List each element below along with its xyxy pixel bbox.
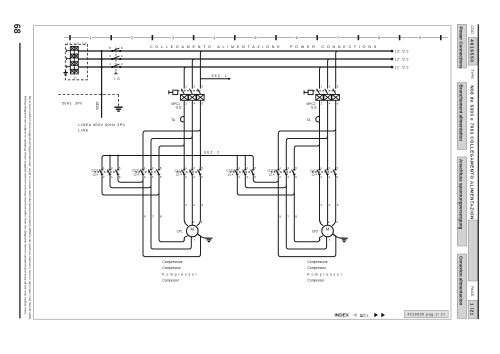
svg-text:Compressore: Compressore (162, 260, 182, 264)
contactor CDT1 (136, 167, 161, 176)
svg-text:12.4: 12.4 (176, 172, 182, 176)
svg-text:5: 5 (202, 85, 204, 89)
svg-text:3: 3 (201, 203, 203, 207)
svg-text:TA: TA (171, 118, 176, 122)
svg-text:L1 L2 L3: L1 L2 L3 (67, 42, 88, 45)
svg-text:12.4: 12.4 (311, 172, 317, 176)
main switch IG blade pole 1-2 (112, 64, 121, 68)
svg-text:COLLEGAMENTO ALIMENTAZIONE PO: COLLEGAMENTO ALIMENTAZIONE POWER CONNECT… (150, 45, 379, 49)
svg-text:3: 3 (337, 203, 339, 207)
ruler numbers (90, 36, 422, 40)
motor earth (205, 238, 212, 241)
file reference box (405, 311, 449, 318)
wire labels 9 7 8 (144, 215, 162, 219)
MPC1 pin labels (185, 85, 203, 106)
svg-text:7: 7 (337, 36, 339, 40)
svg-text:4916550: 4916550 (469, 39, 474, 62)
svg-text:Branchement alimentation: Branchement alimentation (459, 85, 464, 142)
svg-text:4916550 pag.1/ 21: 4916550 pag.1/ 21 (407, 313, 445, 317)
contactor CL2 (312, 167, 337, 176)
svg-text:Gli schemi elettrici sono sogg: Gli schemi elettrici sono soggetti ad ag… (28, 96, 32, 320)
svg-text:INDEX: INDEX (335, 313, 350, 318)
wire drop line L2 to MPC1 pole3 (192, 59, 194, 89)
svg-text:~: ~ (327, 233, 329, 237)
svg-text:6: 6 (337, 102, 339, 106)
breaker MPC1 handle (169, 90, 178, 94)
nav left triangle (gray) (353, 313, 357, 318)
breaker MPC2 contacts (313, 89, 336, 94)
star bridge pole risers (110, 156, 245, 168)
svg-text:Kompressor: Kompressor (162, 272, 198, 276)
svg-text:3: 3 (109, 54, 111, 58)
svg-text:5: 5 (109, 46, 111, 50)
wire MPC1 pole2 down to CL1 (183, 100, 185, 167)
svg-text:TA: TA (307, 118, 312, 122)
svg-text:50Hz 3Ph: 50Hz 3Ph (62, 102, 83, 106)
wire CDT2 col to motor terminal 7 (286, 177, 326, 249)
sidebar cell Anschluss spannungversorgung (457, 157, 466, 246)
wire delta loop CST2-2 to CDT2-6 (237, 177, 294, 195)
svg-text:G.S.: G.S. (176, 105, 182, 109)
svg-text:1: 1 (185, 85, 187, 89)
svg-text:1: 1 (185, 203, 187, 207)
motor terminal labels 1 2 3 (320, 220, 338, 224)
svg-text:1: 1 (321, 85, 323, 89)
wire MPC1 pole6 down to CL1 (199, 100, 201, 167)
current transformer TA1 (180, 116, 184, 121)
wire CDT2 col to motor terminal 8 (278, 177, 336, 257)
wire CL1 col to motor terminal 1 (184, 177, 188, 226)
wire MPC2 pole4 down to CL2 (327, 100, 329, 167)
wire drop line L1 to MPC2 pole1 (320, 67, 322, 89)
wire MPC2 pole2 down to CL2 (319, 100, 321, 167)
sidebar border line (478, 24, 479, 319)
node L2' end dot (391, 58, 394, 61)
svg-text:6: 6 (121, 46, 123, 50)
wire motor frame to earth (333, 234, 344, 238)
svg-text:1: 1 (321, 203, 323, 207)
page frame (34, 25, 451, 319)
svg-text:Kompressor: Kompressor (307, 272, 343, 276)
SEZ.1 branch arrow (200, 78, 228, 80)
wire CDT1 col to motor terminal 9 (159, 177, 188, 242)
motor terminal labels 1 2 3 (185, 220, 203, 224)
svg-text:7: 7 (329, 238, 331, 242)
wire step branch pole4 to CDT1 col3 (151, 136, 192, 167)
svg-text:~: ~ (191, 233, 193, 237)
IG linkage dashed (115, 48, 117, 72)
svg-text:12.4: 12.4 (228, 172, 234, 176)
wire CDT1 col to motor terminal 7 (151, 177, 191, 249)
svg-text:M: M (191, 227, 195, 232)
svg-text:1: 1 (320, 220, 322, 224)
motor bottom terminal labels 9 7 (184, 238, 196, 242)
svg-text:1: 1 (109, 62, 111, 66)
wire step branch pole2 to CDT2 col5 (294, 144, 319, 168)
sidebar gray band (468, 220, 477, 281)
svg-text:Compressor: Compressor (307, 266, 326, 270)
left margin rule (19, 43, 21, 318)
svg-text:2: 2 (193, 203, 195, 207)
svg-text:I G: I G (114, 77, 121, 81)
ruler ticks (70, 35, 441, 40)
svg-text:6: 6 (296, 36, 298, 40)
wire CDT1 col to motor terminal 8 (143, 177, 201, 257)
sidebar cell Conexion alimentacion (457, 254, 466, 319)
svg-text:2: 2 (328, 220, 330, 224)
dashed enclosure line horizontal (58, 94, 118, 96)
svg-text:9: 9 (419, 36, 421, 40)
label Compressore block (162, 260, 198, 283)
svg-text:4: 4 (193, 102, 195, 106)
wire step branch pole2 to CDT1 col5 (159, 144, 184, 168)
svg-text:5: 5 (254, 36, 256, 40)
svg-text:1 /21: 1 /21 (469, 303, 474, 316)
contactor CST2 (230, 167, 255, 176)
wire drop line L3 to MPC2 pole5 (336, 51, 338, 89)
wire CL2 col to motor terminal 2 (327, 177, 329, 226)
wire drop line L2 to MPC2 pole3 (328, 59, 330, 89)
terminal block X1 dashed enclosure (65, 44, 87, 80)
svg-text:1/21: 1/21 (360, 313, 370, 318)
wire CL2 col to motor terminal 3 (332, 177, 336, 226)
wire SEZ.2 star bridge line (102, 156, 253, 168)
svg-text:12.4: 12.4 (269, 172, 275, 176)
power line L3 (78, 50, 392, 52)
svg-text:1 L: 1 L (73, 76, 77, 80)
wire labels 1 2 3 (321, 203, 339, 207)
nav right triangles (374, 313, 378, 318)
wire step branch pole6 to CDT2 col1 (278, 129, 335, 168)
wire step branch pole4 to CDT2 col3 (286, 136, 327, 167)
wire drop line L3 to MPC1 pole5 (200, 51, 202, 89)
wire motor frame to earth (198, 234, 209, 238)
power line L2 (78, 58, 392, 60)
wire labels 9 7 8 (279, 215, 297, 219)
svg-text:LINEA 400V 50Hz 3Ph: LINEA 400V 50Hz 3Ph (78, 123, 125, 127)
breaker MPC2 thermal elements (316, 94, 340, 100)
contactor CST1 (95, 167, 120, 176)
compressor motor CP2 (322, 225, 334, 237)
svg-text:SEZA: SEZA (95, 102, 99, 111)
svg-text:2: 2 (185, 102, 187, 106)
svg-text:PAGE: PAGE (470, 286, 474, 297)
svg-text:SEZ. 1: SEZ. 1 (212, 74, 228, 78)
sidebar cell Power Connections (457, 24, 466, 68)
svg-text:2: 2 (193, 220, 195, 224)
svg-text:Compressore: Compressore (307, 260, 327, 264)
sidebar code 4916550 (468, 38, 477, 66)
wire delta loop CST1-2 to CDT1-6 (102, 177, 159, 195)
svg-text:2: 2 (321, 102, 323, 106)
svg-text:3: 3 (329, 85, 331, 89)
svg-text:2: 2 (329, 203, 331, 207)
wire SEZA vertical drop (101, 51, 103, 118)
svg-text:3: 3 (172, 36, 174, 40)
wire delta loop CST1-6 to CDT1-2 (118, 177, 143, 183)
svg-text:9: 9 (279, 215, 281, 219)
svg-text:Wiring diagrams are subject to: Wiring diagrams are subject to updating;… (24, 96, 28, 315)
svg-text:4: 4 (121, 54, 123, 58)
svg-text:G.S.: G.S. (311, 105, 317, 109)
svg-text:2: 2 (121, 62, 123, 66)
svg-text:1: 1 (90, 36, 92, 40)
svg-text:N08 de 5003 e 7003 COLLEGAMENT: N08 de 5003 e 7003 COLLEGAMENTO ALIMENTA… (470, 86, 475, 224)
svg-text:Power Connections: Power Connections (459, 27, 464, 70)
svg-text:3: 3 (193, 85, 195, 89)
current transformer TA2 (316, 116, 320, 121)
terminal left tick marks (67, 49, 71, 68)
svg-text:L1' /2.0: L1' /2.0 (395, 65, 409, 69)
power line L1 (78, 66, 392, 68)
svg-text:Conexion alimentacion: Conexion alimentacion (459, 256, 464, 305)
svg-text:7: 7 (152, 215, 154, 219)
breaker MPC2 handle (304, 90, 313, 94)
svg-text:L2' /2.0: L2' /2.0 (395, 57, 409, 61)
svg-text:8: 8 (378, 36, 380, 40)
svg-text:7: 7 (193, 238, 195, 242)
svg-text:TYPE: TYPE (470, 69, 474, 79)
svg-text:CP1: CP1 (177, 229, 183, 233)
svg-text:5: 5 (337, 85, 339, 89)
node L3' end dot (391, 50, 394, 53)
svg-text:SEZ. 2: SEZ. 2 (204, 150, 220, 154)
IG handle stub (114, 72, 117, 74)
svg-text:9: 9 (319, 238, 321, 242)
svg-text:4: 4 (213, 36, 215, 40)
svg-text:Compresor: Compresor (307, 279, 325, 283)
wire CDT2 col to motor terminal 9 (294, 177, 323, 242)
compressor motor CP1 (187, 225, 199, 237)
svg-text:1: 1 (185, 220, 187, 224)
wire step branch pole6 to CDT1 col1 (143, 129, 200, 168)
node dots SEZA taps (101, 50, 103, 52)
wire delta loop CST2-6 to CDT2-2 (253, 177, 278, 183)
svg-text:LINE: LINE (78, 129, 88, 133)
main switch IG blade pole 3-4 (112, 56, 121, 60)
wire CL1 col to motor terminal 2 (191, 177, 193, 226)
motor bottom terminal labels 9 7 (319, 238, 331, 242)
svg-text:CP2: CP2 (312, 229, 318, 233)
IG pin labels (109, 46, 123, 66)
svg-text:L3' /2.0: L3' /2.0 (395, 49, 409, 53)
svg-text:9: 9 (184, 238, 186, 242)
main switch IG blade pole 5-6 (112, 48, 121, 52)
wire CL2 col to motor terminal 1 (320, 177, 324, 226)
svg-text:Anschluss spannungversorgung: Anschluss spannungversorgung (459, 159, 464, 230)
svg-text:M: M (326, 227, 330, 232)
wire CL1 col to motor terminal 3 (197, 177, 201, 226)
wire delta loop CST2-4 to CDT2-4 (245, 177, 286, 188)
breaker MPC1 contacts (178, 89, 201, 94)
svg-text:68: 68 (12, 24, 22, 34)
PE earth mark (63, 70, 67, 75)
contactor CDT2 (271, 167, 296, 176)
svg-text:7: 7 (287, 215, 289, 219)
svg-text:Compresor: Compresor (162, 279, 180, 283)
terminal strip X1 grid (70, 47, 78, 74)
svg-text:8: 8 (160, 215, 162, 219)
wire drop line L1 to MPC1 pole1 (184, 67, 186, 89)
svg-text:9: 9 (144, 215, 146, 219)
ground (line earth) (114, 107, 122, 111)
node L1' end dot (391, 66, 394, 69)
contactor CL1 (177, 167, 202, 176)
wire MPC2 pole6 down to CL2 (335, 100, 337, 167)
svg-text:Compressor: Compressor (162, 266, 181, 270)
svg-text:4: 4 (329, 102, 331, 106)
sidebar page number (468, 300, 477, 318)
motor earth (341, 238, 348, 241)
label Compressore block (307, 260, 343, 283)
sidebar cell Branchement alimentation (457, 83, 466, 150)
wire labels 1 2 3 (185, 203, 203, 207)
svg-text:12.4: 12.4 (133, 172, 139, 176)
svg-text:2: 2 (131, 36, 133, 40)
wire delta loop CST1-4 to CDT1-4 (110, 177, 151, 188)
ruler line (64, 37, 448, 39)
svg-text:3: 3 (336, 220, 338, 224)
breaker MPC1 thermal elements (181, 94, 205, 100)
MPC2 pin labels (321, 85, 339, 106)
wire MPC1 pole4 down to CL1 (191, 100, 193, 167)
svg-text:COD.: COD. (470, 25, 474, 35)
node dots star bridge (109, 155, 111, 157)
svg-text:6: 6 (202, 102, 204, 106)
svg-text:12.4: 12.4 (92, 172, 98, 176)
dashed drop to earth (118, 95, 120, 107)
svg-text:3: 3 (201, 220, 203, 224)
svg-text:8: 8 (295, 215, 297, 219)
